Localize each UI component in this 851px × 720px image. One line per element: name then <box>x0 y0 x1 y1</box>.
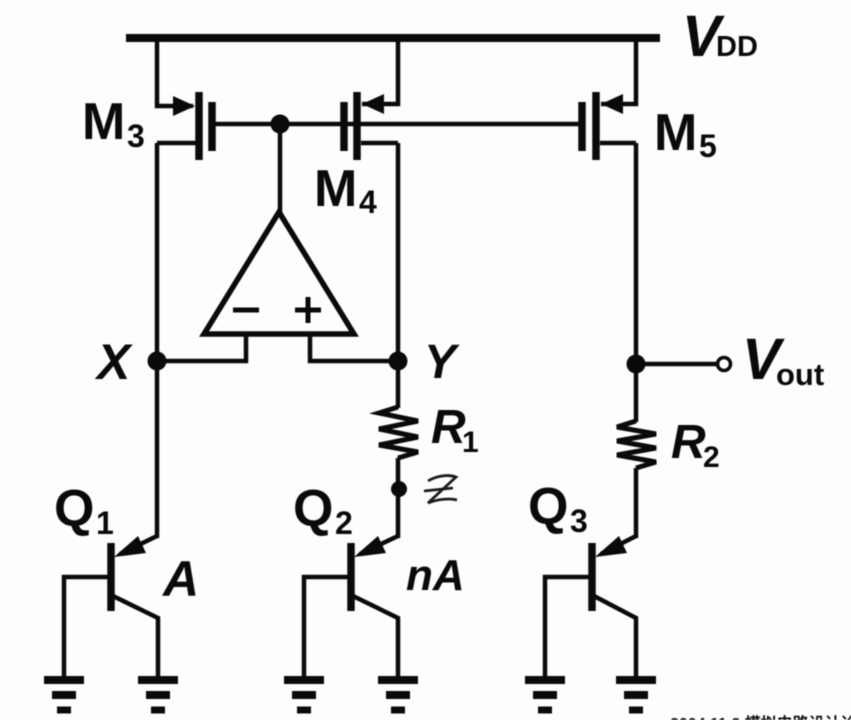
svg-text:M: M <box>654 104 697 162</box>
node Y <box>389 352 408 371</box>
node Z <box>391 481 407 497</box>
svg-text:DD: DD <box>716 31 758 63</box>
wire R1 to Q2 emitter <box>396 458 401 538</box>
net VDD label <box>682 4 758 69</box>
svg-text:M: M <box>82 93 125 151</box>
label M5 <box>654 104 717 164</box>
svg-text:Y: Y <box>424 336 460 389</box>
transistor M4 <box>344 92 398 160</box>
wire gate bus M3-M4-M5 <box>212 122 582 127</box>
ground (Q2 base) <box>284 680 324 710</box>
svg-text:M: M <box>314 160 357 218</box>
svg-text:2: 2 <box>335 505 353 541</box>
transistor Q2 <box>304 536 398 676</box>
ground (Q1 collector) <box>138 680 178 710</box>
label nA <box>406 551 465 600</box>
svg-text:3: 3 <box>570 503 588 539</box>
terminal Vout (open circle) <box>718 358 731 371</box>
label X <box>94 334 133 390</box>
svg-text:1: 1 <box>96 505 114 541</box>
svg-text:5: 5 <box>699 128 717 164</box>
node Vout <box>627 355 646 374</box>
label Y <box>424 336 460 389</box>
label A <box>161 551 199 607</box>
transistor M5 <box>582 92 636 160</box>
label Q1 <box>54 480 114 541</box>
label R2 <box>671 416 720 474</box>
VDD rail <box>126 34 660 42</box>
node gate junction <box>271 115 290 134</box>
label M3 <box>82 93 145 154</box>
resistor R1 <box>379 407 418 458</box>
wire VDD to M3 source <box>157 38 193 106</box>
wire M3 drain to node X <box>155 143 160 361</box>
wire op-amp non-inverting input to node Y <box>310 334 398 361</box>
wire M4 drain to node Y <box>396 143 401 361</box>
wire VDD to M5 source <box>601 38 636 104</box>
ground (Q2 collector) <box>378 680 418 710</box>
label Z (handwritten) <box>424 476 457 503</box>
ground (Q3 base) <box>525 680 565 710</box>
label Q2 <box>293 480 353 541</box>
watermark text (bottom right, clipped) <box>670 714 851 720</box>
label R1 <box>431 401 479 459</box>
label M4 <box>314 160 377 220</box>
wire node X to Q1 emitter <box>155 361 160 538</box>
wire M5 drain to Vout node <box>634 143 639 364</box>
svg-text:1: 1 <box>462 426 479 459</box>
label Q3 <box>528 478 588 539</box>
svg-text:3: 3 <box>127 118 145 154</box>
svg-text:out: out <box>776 357 824 392</box>
ground (Q3 collector) <box>616 680 656 710</box>
transistor Q3 <box>545 536 636 676</box>
svg-text:nA: nA <box>406 551 465 600</box>
svg-text:R: R <box>671 416 706 469</box>
svg-text:X: X <box>94 334 133 390</box>
label Vout <box>742 327 824 392</box>
wire op-amp inverting input to node X <box>157 334 246 361</box>
ground (Q1 base) <box>44 680 84 710</box>
wire Vout node to R2 <box>634 364 639 422</box>
transistor Q1 <box>64 536 158 676</box>
op-amp U1 <box>204 212 354 334</box>
svg-text:2: 2 <box>703 441 720 474</box>
svg-text:R: R <box>431 401 466 454</box>
wire VDD to M4 source <box>362 38 398 104</box>
wire Vout node to terminal <box>636 362 717 367</box>
resistor R2 <box>617 421 656 468</box>
transistor M3 <box>157 92 212 160</box>
node X <box>148 352 167 371</box>
svg-text:4: 4 <box>359 184 377 220</box>
svg-text:Q: Q <box>293 480 333 538</box>
svg-text:Q: Q <box>54 480 94 538</box>
wire R2 to Q3 emitter <box>634 468 639 538</box>
svg-text:2004.11.2 模拟电路设计论坛: 2004.11.2 模拟电路设计论坛 <box>670 714 851 720</box>
svg-text:A: A <box>161 551 199 607</box>
wire node Y to R1 <box>396 361 401 408</box>
wire gate node to op-amp output <box>278 124 283 216</box>
svg-text:Q: Q <box>528 478 568 536</box>
